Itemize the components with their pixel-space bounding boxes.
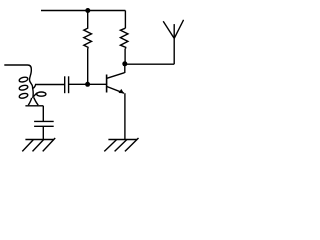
ground GND2 (right)	[104, 138, 138, 151]
capacitor C2 (coupling)	[65, 76, 69, 93]
capacitor C1 (tuning, to ground)	[34, 121, 54, 126]
wire R2 top lead from rail corner	[124, 11, 126, 29]
wire R1 top lead	[87, 11, 89, 27]
wire R2 bottom lead to collector node	[124, 49, 126, 64]
wire bar to tuning capacitor	[42, 106, 44, 121]
wire R1 bottom lead to base node	[87, 49, 89, 85]
wire C1 to ground	[42, 126, 44, 139]
coil base funnel and bar	[25, 98, 43, 106]
wire top supply rail	[41, 10, 125, 12]
resistor R1	[84, 26, 92, 49]
wire C2 to base node	[69, 83, 88, 85]
wire base node to transistor base	[88, 83, 106, 85]
antenna ANT1	[163, 20, 183, 64]
node collector junction dot	[122, 61, 127, 66]
wire coil tap to coupling capacitor	[32, 85, 64, 89]
wire input lead	[4, 65, 31, 69]
inductor L1 (tapped coil)	[19, 69, 46, 99]
wire emitter to ground	[124, 93, 126, 139]
ground GND1 (left)	[22, 138, 55, 151]
node base junction dot	[85, 82, 90, 87]
resistor R2	[120, 28, 128, 48]
node junction dot at rail	[85, 8, 90, 13]
transistor Q1 (NPN)	[107, 64, 125, 94]
wire collector node to antenna	[125, 63, 174, 65]
